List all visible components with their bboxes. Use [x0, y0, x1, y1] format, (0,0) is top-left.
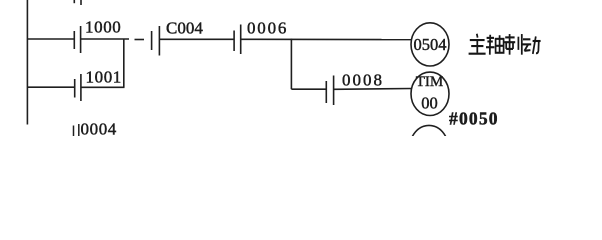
svg-text:1001: 1001 — [86, 68, 122, 87]
wire 1001 to junction A — [81, 86, 124, 88]
rung2 wire rail to contact 1001 — [27, 86, 74, 88]
svg-text:1000: 1000 — [85, 18, 121, 37]
contact C004 — [152, 26, 160, 56]
svg-text:0004: 0004 — [81, 120, 117, 136]
char 动 — [522, 36, 540, 54]
svg-text:0504: 0504 — [414, 35, 447, 54]
svg-text:#0050: #0050 — [449, 109, 499, 129]
char 主 — [469, 34, 486, 54]
svg-text:00: 00 — [421, 94, 438, 113]
contact 0008 — [326, 76, 333, 106]
bottom circle (next rung output, cut off) — [410, 125, 448, 168]
wire contact1000 to junction A and on to contact C004 — [81, 38, 129, 40]
contact 0006 — [234, 25, 241, 55]
bottom contact 0004 fragment — [74, 124, 79, 136]
contact 1000 — [74, 26, 80, 53]
branch wire junction B to contact 0008 — [291, 88, 326, 90]
junction B vertical (branch to TIM) — [290, 39, 292, 90]
wire 0006 to coil 0504 — [241, 38, 412, 40]
svg-text:0008: 0008 — [342, 71, 384, 90]
junction A vertical (parallel branch 1000/1001) — [123, 39, 125, 88]
wire C004 to 0006 — [160, 38, 234, 40]
svg-text:C004: C004 — [166, 19, 203, 38]
contact 1001 — [75, 74, 81, 101]
wire rung1 rail to contact 1000 — [27, 38, 74, 40]
char 制 — [504, 34, 521, 55]
wire 0008 to TIM — [334, 88, 411, 91]
svg-text:0006: 0006 — [247, 19, 288, 38]
contact fragment from rung above (cut off at top) — [73, 0, 75, 3]
timer circle TIM00 — [411, 72, 449, 115]
svg-text:TIM: TIM — [416, 74, 444, 90]
char 轴 — [486, 35, 504, 55]
chinese caption 主轴制动 (drawn strokes) — [469, 34, 541, 55]
coil circle 0504 — [411, 23, 449, 66]
left power rail — [26, 0, 28, 125]
